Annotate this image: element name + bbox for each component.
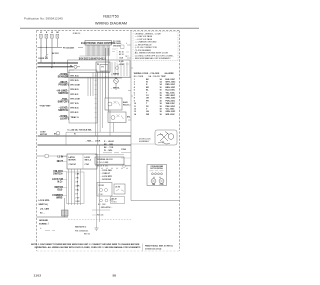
wire top horizontal feeder [38, 46, 63, 48]
keyboard connector stub [121, 45, 125, 49]
svg-text:18: 18 [160, 103, 162, 105]
lower-left junction box [62, 210, 69, 216]
svg-text:GN: GN [146, 111, 149, 113]
svg-text:FEB27T5D: FEB27T5D [103, 15, 119, 19]
svg-text:8: 8 [134, 98, 135, 100]
svg-text:SCREW-⏚: SCREW-⏚ [39, 221, 49, 225]
bake element E1 [114, 79, 119, 84]
side stub components [121, 152, 131, 154]
dashed separator lower [68, 219, 131, 221]
svg-text:13: 13 [134, 111, 136, 113]
svg-text:VIO–105C: VIO–105C [166, 109, 175, 111]
svg-text:V: V [146, 109, 148, 111]
svg-text:4: 4 [134, 86, 136, 89]
svg-text:2 W: 2 W [76, 178, 79, 180]
svg-text:ORN–105C: ORN–105C [166, 98, 176, 100]
svg-text:LIGHT-|: LIGHT-| [60, 117, 69, 120]
element wires [115, 77, 117, 80]
EOC connector pin numbers [79, 56, 107, 60]
switch S1 contact [45, 54, 48, 56]
wire above terminal block [95, 154, 124, 156]
motor connector pins [152, 173, 163, 175]
svg-text:DLB: DLB [120, 58, 124, 60]
svg-text:→ BAKE: → BAKE [111, 73, 120, 76]
svg-text:WHT–105C: WHT–105C [166, 82, 177, 84]
fan motor M2 [159, 179, 164, 184]
svg-text:-o- RECEPTACLE: -o- RECEPTACLE [135, 43, 152, 46]
conv motor symbol [56, 131, 60, 135]
svg-text:N.O.-: N.O.- [58, 182, 64, 184]
broil relay K2 [108, 112, 126, 123]
diagram frame bottom border [37, 250, 180, 252]
bake relay K1 [105, 98, 122, 110]
vertical link left [65, 132, 67, 145]
EOC lower enclosure [68, 60, 131, 77]
svg-text:18: 18 [160, 109, 162, 111]
svg-text:OR: OR [146, 98, 149, 100]
relay connector J1 outer [96, 62, 110, 72]
title cell divider [142, 244, 144, 252]
svg-text:RY2 N.O.: RY2 N.O. [71, 80, 80, 82]
latch control box U3 [67, 154, 97, 169]
breaker CB4 [56, 34, 59, 38]
svg-text:C NO NC: C NO NC [69, 164, 77, 166]
svg-text:→ DR LATCH ←: → DR LATCH ← [99, 206, 113, 209]
svg-text:5 BL: 5 BL [76, 190, 80, 192]
wire N drop [46, 39, 48, 56]
svg-text:GA WIRE: GA WIRE [165, 72, 175, 75]
svg-text:L2 BK: L2 BK [119, 64, 125, 66]
svg-text:RY5 N.C.: RY5 N.C. [71, 94, 80, 96]
feeder continues [78, 46, 83, 48]
svg-text:LEGEND - WIRING - CODE: LEGEND - WIRING - CODE [135, 33, 162, 35]
junction N-feeder [46, 47, 47, 48]
svg-text:N: N [46, 32, 48, 34]
svg-text:MOTOR: MOTOR [40, 134, 48, 136]
svg-text:WR: WR [146, 114, 150, 116]
ground symbol [95, 228, 99, 230]
divider tick stubs [127, 45, 133, 120]
svg-text:Y: Y [146, 92, 148, 94]
svg-text:16: 16 [160, 87, 162, 89]
svg-text:4 BR: 4 BR [76, 185, 81, 188]
svg-text:14: 14 [160, 81, 163, 84]
svg-text:P/N 318550123: P/N 318550123 [75, 231, 88, 233]
svg-text:MOTOR: MOTOR [69, 159, 77, 161]
svg-text:N: N [126, 56, 128, 58]
svg-text:RELAY: RELAY [112, 198, 118, 201]
wire to door lock assembly [131, 143, 155, 145]
svg-text:SWITCH-|: SWITCH-| [39, 204, 49, 206]
svg-text:→ LOCK MTR: → LOCK MTR [100, 176, 112, 178]
svg-text:RY6 COM: RY6 COM [71, 98, 80, 100]
svg-text:--- LINE VOLTAGE: --- LINE VOLTAGE [135, 35, 153, 38]
svg-text:PNK–105C: PNK–105C [166, 106, 176, 108]
svg-text:RY8 N.O.: RY8 N.O. [71, 108, 80, 110]
svg-text:N 240: N 240 [119, 60, 124, 63]
svg-text:BR → FAN: BR → FAN [104, 143, 114, 146]
svg-text:K3 N.O.: K3 N.O. [112, 201, 118, 203]
right column divider [130, 31, 132, 201]
svg-text:318550123 (0102): 318550123 (0102) [145, 249, 162, 251]
svg-text:ASSEMBLY: ASSEMBLY [139, 140, 150, 143]
svg-text:2: 2 [134, 82, 135, 84]
svg-text:PR: PR [146, 100, 149, 102]
wire neutral bus [64, 76, 131, 78]
svg-text:→ COOL FAN: → COOL FAN [100, 169, 112, 172]
door switch cluster box B [114, 184, 125, 194]
svg-text:L-: L- [40, 228, 42, 230]
svg-text:BLK–105C: BLK–105C [166, 79, 176, 81]
wire mid bus A [38, 135, 132, 137]
svg-text:NO CODE GA COLOR: NO CODE GA COLOR TEMP [134, 75, 167, 78]
svg-text:BL: BL [146, 90, 149, 92]
wire into latch box [37, 155, 45, 157]
svg-text:18: 18 [160, 95, 162, 97]
wire bottom horizontal [37, 216, 68, 218]
door lock mechanism linkage [157, 132, 170, 145]
svg-text:BLU–105C: BLU–105C [166, 90, 176, 92]
bus1 arrow connector [54, 62, 57, 64]
svg-text:- - LOW VOLTAGE: - - LOW VOLTAGE [135, 38, 153, 41]
svg-text:TAN–105C: TAN–105C [166, 102, 176, 105]
wire L1 bus [38, 62, 79, 64]
wire drop H1 [96, 145, 98, 228]
svg-text:RY9 N.C.: RY9 N.C. [71, 112, 80, 114]
door lock cam circle [168, 134, 174, 140]
svg-text:→ MDL ← LOCK: → MDL ← LOCK [85, 141, 101, 143]
wire mid thin [66, 131, 131, 133]
door lock pivot [162, 141, 164, 143]
diagram frame left border [36, 31, 38, 251]
svg-text:PS 120/240V: PS 120/240V [63, 46, 75, 49]
relay connector J1 inner [100, 65, 108, 72]
relay drop wires [109, 110, 111, 136]
latch relay contact [116, 67, 119, 70]
svg-text:BK: BK [146, 79, 149, 81]
inline fuse F1 [45, 155, 48, 158]
terminal block box [95, 157, 124, 164]
svg-text:TERMINAL BLOCK: TERMINAL BLOCK [97, 158, 114, 161]
door lock assembly box [155, 130, 177, 145]
breaker CB2 [45, 34, 48, 38]
svg-text:18: 18 [160, 111, 162, 113]
svg-text:LATCH: LATCH [69, 156, 76, 159]
lower switch pair [100, 199, 103, 202]
aux relay small box [111, 197, 125, 204]
svg-text:YEL–105C: YEL–105C [166, 92, 176, 94]
svg-text:NOTE: 1. DISCONNECT POWER BEF: NOTE: 1. DISCONNECT POWER BEFORE SERVICI… [31, 243, 140, 246]
svg-text:−TOD−SW−: −TOD−SW− [39, 106, 52, 108]
svg-text:W: W [146, 82, 148, 84]
svg-text:TRIAC G: TRIAC G [71, 116, 80, 119]
svg-text:GROUND: GROUND [39, 220, 48, 222]
latch pin row box [67, 172, 85, 204]
svg-text:9: 9 [134, 100, 135, 102]
motor dash row [150, 170, 164, 172]
svg-text:GRN–105C: GRN–105C [166, 111, 176, 113]
svg-text:WIRE-: WIRE- [56, 198, 63, 200]
svg-text:11: 11 [134, 106, 136, 108]
electronic oven control U1 [85, 41, 112, 45]
right column bottom edge [131, 200, 180, 202]
svg-text:LOCK MTR-: LOCK MTR- [39, 200, 51, 202]
svg-text:h= +4/4 1/4= TOD DLB MDL: h= +4/4 1/4= TOD DLB MDL [68, 129, 93, 132]
breaker CB1 [40, 34, 43, 38]
svg-text:P2: P2 [97, 64, 99, 66]
svg-text:8 OR: 8 OR [76, 201, 81, 203]
svg-text:18: 18 [160, 106, 162, 108]
svg-text:REV 02: REV 02 [84, 234, 90, 236]
svg-text:1 BK: 1 BK [76, 174, 81, 176]
svg-text:P3: P3 [102, 66, 104, 68]
header rule [20, 27, 199, 29]
svg-text:BK W R: BK W R [52, 53, 59, 55]
cooling fan motor box [147, 165, 167, 186]
svg-text:6: 6 [134, 92, 135, 94]
svg-text:PUR–105C: PUR–105C [166, 100, 176, 102]
wire GD drop [57, 39, 59, 48]
svg-text:-|- PLUG CONNECTOR: -|- PLUG CONNECTOR [135, 47, 158, 49]
diagram frame top border [37, 30, 180, 32]
dot row [102, 168, 128, 169]
svg-text:J2 BK-16: J2 BK-16 [73, 33, 81, 35]
svg-text:10: 10 [134, 103, 136, 105]
enclosure inner wire [68, 72, 110, 74]
wire row below terminal block [95, 164, 131, 166]
door switch cluster box A [97, 183, 112, 197]
svg-text:14: 14 [134, 113, 137, 116]
svg-text:W → MDL: W → MDL [104, 150, 113, 152]
svg-text:N.C. COM: N.C. COM [98, 204, 106, 206]
svg-text:1: 1 [134, 79, 135, 81]
wire L2 drop [51, 39, 53, 67]
svg-text:Publication No: 5995412345: Publication No: 5995412345 [24, 16, 63, 20]
svg-text:W/R–200C: W/R–200C [166, 114, 176, 116]
plus marks [153, 176, 161, 178]
wire vertical to broil [107, 48, 109, 112]
svg-text:→ OVEN LT: → OVEN LT [100, 173, 111, 175]
svg-text:CONN: CONN [121, 149, 127, 151]
wire vertical to bake [105, 48, 107, 98]
bus2 plug connector P4 [74, 65, 77, 68]
svg-text:BR: BR [146, 87, 149, 89]
svg-text:3: 3 [134, 84, 135, 86]
svg-text:PK: PK [146, 106, 149, 108]
svg-text:GRY–200C: GRY–200C [166, 95, 176, 97]
wire mid bus B [38, 144, 132, 146]
svg-text:ALL WIRING SHOWN WITH DOOR: ALL WIRING SHOWN WITH DOOR [135, 52, 169, 55]
svg-text:CLOSED, OVEN OFF & DOOR LOCKED: CLOSED, OVEN OFF & DOOR LOCKED, [135, 55, 174, 57]
bus junction dots [40, 62, 116, 78]
svg-text:-|Y|- CAM: -|Y|- CAM [40, 207, 49, 210]
EOC ribbon wires [86, 45, 110, 56]
svg-text:R → HI-LIM: R → HI-LIM [104, 141, 114, 143]
relay board box U2 [69, 70, 97, 123]
svg-text:BK → TOD: BK → TOD [104, 147, 114, 149]
svg-text:7: 7 [134, 95, 135, 97]
svg-text:14: 14 [160, 83, 163, 86]
enclosure stub ticks [69, 62, 127, 76]
svg-text:18: 18 [160, 98, 162, 100]
lower-left bundle wire [64, 198, 66, 217]
svg-text:RY1 N.O.: RY1 N.O. [71, 75, 80, 77]
svg-text:→ DOOR SW: → DOOR SW [100, 179, 111, 181]
svg-text:GD: GD [56, 32, 59, 34]
svg-text:C NO: C NO [99, 194, 104, 196]
svg-text:SEE MINI MANUAL FOR SCHEMATIC: SEE MINI MANUAL FOR SCHEMATIC [135, 57, 171, 60]
svg-text:W: W [74, 134, 76, 136]
svg-text:L: L [126, 43, 127, 45]
svg-text:1102: 1102 [34, 274, 42, 278]
svg-text:RY3 COM: RY3 COM [71, 85, 80, 87]
svg-text:ELECTRONIC OVEN CONTROL: ELECTRONIC OVEN CONTROL [81, 43, 116, 45]
svg-text:-*- CHASSIS GROUND: -*- CHASSIS GROUND [135, 41, 157, 44]
svg-text:L1: L1 [40, 32, 42, 34]
svg-text:OPERATING. ALL WIRING SHOWN WI: OPERATING. ALL WIRING SHOWN WITH DOOR CL… [35, 246, 142, 249]
dashed latch wire [116, 48, 118, 66]
svg-text:LK SW: LK SW [115, 186, 121, 188]
small stub ticks right of EOC [112, 49, 129, 64]
wire drop H2 [99, 145, 101, 222]
legend notes box [133, 32, 178, 61]
svg-text:L1 N L2 GND: L1 N L2 GND [97, 162, 110, 164]
svg-text:18: 18 [160, 100, 162, 102]
svg-text:GROUND: GROUND [113, 46, 121, 48]
diagram frame right border [179, 31, 181, 251]
svg-text:DOOR SW: DOOR SW [39, 58, 48, 60]
svg-text:L1 IN: L1 IN [57, 157, 63, 159]
svg-text:5: 5 [134, 90, 135, 92]
svg-text:RELAY: RELAY [123, 103, 129, 106]
latch box drop wires [69, 169, 81, 205]
svg-text:BRN–105C: BRN–105C [166, 87, 176, 89]
svg-text:CONV: CONV [159, 184, 163, 186]
svg-text:DLB-: DLB- [58, 190, 64, 192]
svg-text:→ BROIL: → BROIL [111, 88, 121, 90]
svg-text:RY4 N.O.: RY4 N.O. [71, 88, 80, 91]
svg-text:P6 1 2 3: P6 1 2 3 [97, 214, 103, 216]
svg-text:7 GY: 7 GY [76, 198, 81, 200]
svg-text:12: 12 [134, 109, 136, 111]
svg-text:6 Y: 6 Y [76, 194, 79, 196]
fan motor M1 [151, 179, 156, 184]
svg-text:SW 1-2: SW 1-2 [85, 159, 91, 161]
svg-text:16: 16 [160, 90, 162, 92]
svg-text:16: 16 [160, 92, 162, 94]
svg-text:C NO: C NO [85, 164, 90, 166]
svg-text:3 R: 3 R [76, 182, 79, 184]
svg-text:L2: L2 [51, 32, 53, 34]
mid-right component ticks [103, 152, 119, 154]
svg-text:SWITCH-: SWITCH- [53, 174, 63, 176]
junction L1-feeder [40, 47, 41, 48]
breaker CB3 [51, 34, 54, 38]
svg-text:K2 12: K2 12 [119, 54, 124, 56]
svg-text:RY7 N.O.: RY7 N.O. [71, 103, 80, 105]
svg-text:FEB27T5DSA SER. B REV A: FEB27T5DSA SER. B REV A [145, 245, 173, 248]
wire L2 bus [38, 66, 74, 68]
svg-text:14: 14 [160, 78, 163, 81]
svg-text:T: T [146, 103, 148, 105]
wire bake feed [70, 77, 122, 79]
junction marks on bus A [56, 135, 97, 136]
svg-text:R: R [146, 84, 148, 86]
svg-text:GY: GY [146, 95, 149, 97]
svg-text:PROBE-|: PROBE-| [59, 84, 69, 87]
svg-text:18: 18 [160, 114, 162, 116]
wire L1 drop [40, 39, 42, 64]
svg-text:BRL: BRL [127, 117, 130, 119]
svg-text:S# →: S# → [40, 213, 45, 215]
svg-text:BK W R GN: BK W R GN [97, 166, 108, 168]
svg-text:WIRING DIAGRAM: WIRING DIAGRAM [95, 21, 127, 25]
svg-text:MOTOR DETAIL: MOTOR DETAIL [150, 167, 163, 170]
wire stub row [92, 209, 110, 211]
tick dashes bottom [45, 230, 55, 232]
svg-text:WIRING CODE – COLORS: WIRING CODE – COLORS [134, 73, 160, 75]
center wire bundle [88, 71, 102, 145]
svg-text:58: 58 [113, 274, 117, 278]
svg-text:RED–105C: RED–105C [166, 84, 176, 86]
svg-text:SEE NOTE 2: SEE NOTE 2 [75, 226, 86, 228]
svg-text:(1) PIN NUMBER: (1) PIN NUMBER [135, 50, 152, 52]
